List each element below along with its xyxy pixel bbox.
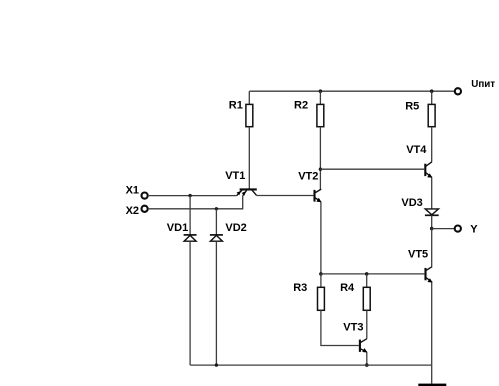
svg-text:VT3: VT3	[343, 322, 363, 334]
junction: VD2 / ground rail	[215, 363, 218, 366]
wire: VT5 collector to node Y	[431, 229, 433, 267]
junction: rail / R2	[319, 89, 323, 93]
svg-text:VT1: VT1	[225, 170, 245, 182]
svg-text:VD3: VD3	[401, 197, 422, 209]
junction: R2 / VT4 base wire	[319, 168, 322, 171]
transistor VT1 (multi-emitter)	[237, 189, 257, 196]
wire: X1 to VT1 emitter1	[148, 195, 237, 197]
ground	[418, 384, 446, 386]
svg-text:R1: R1	[229, 99, 243, 111]
svg-text:VT2: VT2	[298, 170, 318, 182]
wire: X2 to VD2 cathode	[215, 209, 217, 235]
wire: VT3 emitter to ground rail	[366, 352, 368, 365]
wire: R3 to VT3 base	[321, 310, 359, 345]
terminal Uпит	[455, 88, 461, 94]
terminal X2	[142, 206, 148, 212]
svg-text:R2: R2	[294, 99, 308, 111]
svg-text:X1: X1	[126, 184, 139, 196]
wire: VD1 anode to ground rail	[189, 241, 191, 365]
svg-text:VT4: VT4	[406, 144, 427, 156]
resistor R5	[428, 91, 435, 127]
diode VD3	[425, 209, 439, 215]
wire: VT2 collector to VT4 base	[320, 168, 424, 170]
svg-text:R5: R5	[405, 100, 419, 112]
wire: R4 to VT3 collector	[366, 310, 368, 338]
wire: +V supply rail	[249, 90, 454, 92]
junction: rail / R5	[430, 89, 434, 93]
diode VD2	[210, 235, 223, 241]
resistor R2	[317, 91, 324, 127]
wire: VD3 cathode to node Y	[431, 215, 433, 228]
wire: VT2 emitter to VT5 base	[321, 273, 425, 275]
svg-text:VT5: VT5	[408, 248, 428, 260]
wire: VT4 emitter to VD3	[431, 177, 433, 209]
terminal X1	[142, 193, 148, 199]
resistor R4	[363, 274, 370, 310]
svg-text:VD1: VD1	[167, 222, 188, 234]
svg-text:X2: X2	[126, 205, 139, 217]
transistor VT2	[315, 189, 322, 202]
wire: R2 to VT2 collector	[319, 127, 321, 190]
wire: node Y to terminal Y	[432, 228, 455, 230]
wire: X2 to VT1 emitter2	[148, 196, 243, 209]
junction: node Y	[430, 227, 434, 231]
wire: VT1 collector to VT2 base	[257, 195, 314, 197]
junction: X1 / VD1	[188, 194, 191, 197]
svg-text:Uпит: Uпит	[471, 79, 495, 90]
resistor R1	[246, 91, 253, 127]
wire: R1 to VT1 base	[248, 127, 250, 189]
wire: VT5 emitter to ground	[431, 282, 433, 383]
svg-text:R4: R4	[340, 282, 355, 294]
transistor VT4	[425, 162, 432, 178]
transistor VT3	[360, 339, 368, 353]
junction: VT3 emitter / ground rail	[365, 363, 369, 367]
junction: R4 top	[365, 272, 369, 276]
terminal Y	[455, 226, 461, 232]
svg-text:Y: Y	[470, 224, 478, 236]
transistor VT5	[426, 267, 433, 283]
wire: X1 to VD1 cathode	[189, 196, 191, 235]
svg-text:R3: R3	[293, 282, 307, 294]
svg-text:VD2: VD2	[225, 222, 246, 234]
wire: VD2 anode to ground rail	[215, 241, 217, 365]
wire: VT2 emitter down	[320, 202, 322, 274]
wire: ground rail	[190, 364, 432, 366]
diode VD1	[184, 235, 197, 241]
resistor R3	[318, 274, 325, 310]
junction: VT2 emitter / R3 / VT5 base	[319, 272, 323, 276]
junction: X2 / VD2	[215, 207, 218, 210]
wire: R5 to VT4 collector	[431, 127, 433, 162]
